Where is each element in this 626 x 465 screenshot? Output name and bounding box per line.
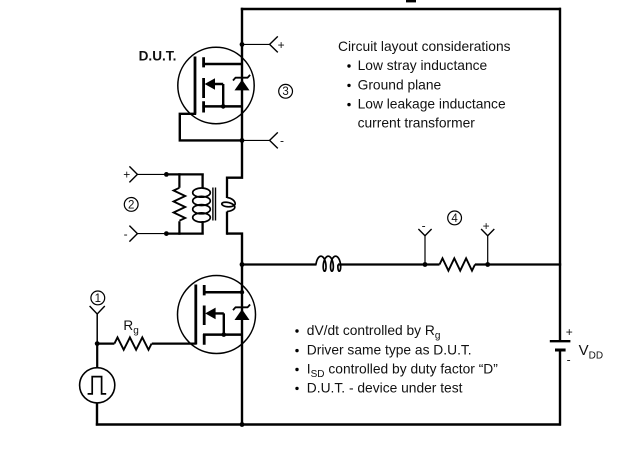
- node sense - probe dot: [423, 262, 428, 267]
- Q1 source lead: [202, 105, 242, 108]
- transistor Q1 D.U.T. envelope circle: [178, 47, 254, 123]
- wire center rail top section (top rail to transformer secondary): [227, 8, 242, 178]
- svg-text:+: +: [483, 219, 490, 233]
- resistor R damping zigzag: [174, 188, 186, 221]
- svg-text:Ground plane: Ground plane: [358, 77, 442, 92]
- svg-text:Low stray inductance: Low stray inductance: [358, 58, 488, 73]
- wire pulse generator to bottom rail: [96, 403, 98, 426]
- Q2 source lead: [203, 333, 242, 336]
- transformer T1 secondary winding: [222, 198, 235, 212]
- node Q2 source junction dot: [222, 332, 227, 337]
- svg-text:+: +: [566, 325, 573, 339]
- wire secondary leads: [226, 177, 228, 235]
- svg-text:2: 2: [128, 199, 134, 211]
- battery VDD negative plate: [555, 349, 566, 352]
- probe fork sense + Y: [481, 229, 494, 236]
- wire right rail upper (top rail to battery +): [559, 8, 561, 341]
- probe wire drain (+): [242, 43, 270, 45]
- svg-text:-: -: [124, 227, 128, 241]
- svg-text:Low leakage inductance: Low leakage inductance: [358, 97, 506, 112]
- transformer T1 core: [213, 188, 216, 221]
- wire transformer bottom (node to primary): [166, 221, 203, 235]
- Q1 substrate arrow tail: [213, 84, 223, 106]
- node transformer - dot: [164, 231, 169, 236]
- resistor Rg zigzag: [114, 337, 151, 349]
- diode D1 body diode triangle (anode below): [235, 80, 250, 91]
- Q2 drain lead: [203, 291, 242, 294]
- probe fork gate input Y: [90, 306, 105, 314]
- wire top rail: [241, 8, 561, 10]
- wire bottom rail: [96, 423, 561, 425]
- svg-text:-: -: [567, 352, 571, 366]
- Q2 channel dashed segments: [203, 285, 206, 345]
- svg-text:ISD controlled by duty factor: ISD controlled by duty factor “D”: [307, 361, 498, 379]
- resistor R sense (current sense): [440, 258, 475, 270]
- wire center rail mid section (secondary to bottom rail): [227, 232, 242, 424]
- Q1 substrate arrowhead: [205, 78, 215, 90]
- probe stem sense -: [424, 236, 426, 265]
- bullet dot 3: [347, 103, 350, 106]
- svg-text:1: 1: [95, 293, 101, 305]
- bullet dot 4: [295, 329, 298, 332]
- Q2 substrate arrowhead: [205, 308, 215, 320]
- Q2 gate plate: [194, 285, 197, 345]
- svg-text:Driver same type as D.U.T.: Driver same type as D.U.T.: [307, 343, 472, 358]
- pulse generator V1 circle: [80, 368, 115, 403]
- wire mid horizontal (node to inductor): [242, 263, 317, 265]
- probe stem sense +: [487, 236, 489, 265]
- pulse generator waveform symbol: [88, 377, 107, 394]
- wire Rg to Q2 gate: [152, 343, 197, 345]
- probe fork source (-): [270, 132, 278, 148]
- svg-text:D.U.T.: D.U.T.: [139, 48, 177, 63]
- diode D1 zener cathode bar: [233, 75, 250, 81]
- bullet dot 7: [295, 387, 298, 390]
- svg-text:VDD: VDD: [579, 342, 603, 362]
- wire Q1 gate-source hook: [180, 114, 242, 141]
- transistor Q2 driver envelope circle: [178, 276, 256, 354]
- label circled 3: [279, 84, 293, 98]
- node source probe junction dot: [240, 138, 245, 143]
- Q2 substrate arrow tail: [214, 313, 224, 334]
- svg-text:current transformer: current transformer: [358, 116, 476, 131]
- node Q1 source junction dot: [221, 104, 226, 109]
- svg-text:+: +: [123, 168, 130, 182]
- label circled 1: [91, 291, 105, 305]
- probe fork transformer input -: [129, 226, 137, 242]
- node sense + probe dot: [485, 262, 490, 267]
- wire sense resistor to right rail: [475, 263, 561, 265]
- battery VDD positive plate: [550, 340, 571, 342]
- probe wire source (-): [242, 139, 270, 141]
- diode D2 zener cathode bar: [233, 305, 250, 311]
- probe wire transformer + to node: [137, 173, 166, 175]
- resistor R damping (across primary) stubs: [178, 173, 180, 235]
- label circled 4: [448, 211, 462, 225]
- svg-text:Circuit layout considerations: Circuit layout considerations: [338, 39, 511, 54]
- node Q2 drain junction dot: [240, 290, 244, 294]
- probe fork transformer input +: [129, 166, 137, 182]
- cropped figure title fragment: [406, 0, 416, 2]
- probe fork drain (+): [270, 36, 278, 52]
- bullet dot 6: [295, 368, 298, 371]
- wire transformer top (node to primary): [166, 173, 203, 188]
- node drain probe junction dot: [240, 42, 245, 47]
- Q1 drain lead: [202, 63, 242, 66]
- svg-text:+: +: [278, 38, 285, 52]
- node gate input junction dot: [95, 341, 100, 346]
- diode D2 body diode triangle: [235, 309, 250, 320]
- bullet dot 2: [347, 84, 350, 87]
- wire node to Rg: [97, 343, 114, 345]
- svg-text:3: 3: [282, 86, 288, 98]
- inductor L (current transformer lead): [316, 256, 341, 271]
- wire gate input stem: [96, 314, 98, 344]
- wire right rail lower (battery - to bottom rail): [559, 351, 561, 426]
- Q1 gate plate: [194, 57, 197, 114]
- wire inductor to sense resistor: [338, 263, 440, 265]
- svg-text:-: -: [280, 134, 284, 148]
- Q1 channel dashed segments: [202, 57, 205, 112]
- svg-text:dV/dt controlled by Rg: dV/dt controlled by Rg: [307, 323, 441, 341]
- bullet dot 5: [295, 349, 298, 352]
- probe fork sense - Y: [418, 229, 431, 236]
- probe wire transformer - to node: [137, 233, 166, 235]
- transformer T1 primary winding: [193, 188, 211, 222]
- svg-text:-: -: [422, 218, 426, 232]
- bullet dot 1: [347, 64, 350, 67]
- svg-text:D.U.T. - device under test: D.U.T. - device under test: [307, 380, 463, 395]
- node mid junction dot: [240, 262, 245, 267]
- svg-text:4: 4: [451, 213, 458, 225]
- wire node to pulse generator: [96, 344, 98, 368]
- node bottom rail junction dot: [240, 422, 245, 427]
- label circled 2: [124, 198, 138, 212]
- node transformer + dot: [164, 172, 169, 177]
- svg-text:Rg: Rg: [123, 318, 138, 336]
